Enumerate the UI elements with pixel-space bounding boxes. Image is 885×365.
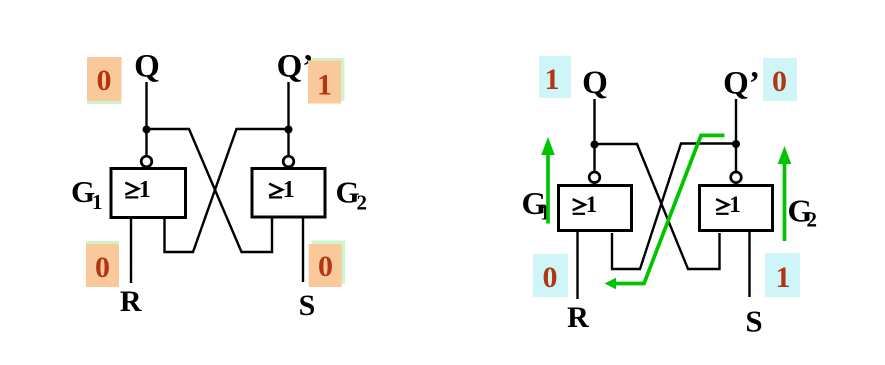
gate G1 NOR body (right latch) [559,186,632,231]
svg-text:0: 0 [95,251,110,284]
gate G2 NOR body (left latch) [252,169,325,218]
svg-text:0: 0 [97,64,112,97]
wire feedback Q to G2 lower input (right latch) [595,144,720,269]
transition arrow up beside G2 (right latch) [778,146,792,241]
svg-text:1: 1 [586,192,598,217]
gate G1 function label >=1 (left latch) [125,177,151,203]
gate G2 NOR body (right latch) [700,186,773,231]
svg-text:1: 1 [139,177,151,203]
label G2 (right latch) [788,193,818,232]
wire Q' output vertical (right latch) [735,99,737,171]
svg-text:Q: Q [134,49,160,85]
value label 0 at node Q' (right latch) [763,58,797,101]
label G2 (left latch) [336,175,368,215]
svg-text:1: 1 [92,190,103,214]
svg-text:0: 0 [318,250,333,283]
inversion bubble on G2 output (left latch) [283,156,294,167]
value label 1 at node Q' (left latch) [308,58,345,104]
value label 0 at R input (left latch) [86,241,119,287]
junction dot on Q wire (right latch) [591,141,599,149]
value label 1 at S input (right latch) [765,253,800,297]
value label 0 at S input (left latch) [309,241,345,288]
inversion bubble on G2 output (right latch) [731,172,742,183]
gate G2 function label >=1 (right latch) [716,192,741,217]
svg-text:Q’: Q’ [723,66,760,102]
junction dot on Q wire (left latch) [143,126,151,134]
svg-text:1: 1 [545,63,560,96]
wire R input (left latch) [130,219,132,283]
value label 1 at node Q (right latch) [539,56,571,98]
gate G1 NOR body (left latch) [111,169,186,218]
svg-text:R: R [120,285,142,318]
value label 0 at node Q (left latch) [87,57,122,104]
inversion bubble on G1 output (left latch) [141,156,152,167]
svg-text:0: 0 [543,261,558,294]
svg-text:1: 1 [729,192,741,217]
inversion bubble on G1 output (right latch) [589,172,600,183]
junction dot on Q' wire (left latch) [285,126,293,134]
gate G1 function label >=1 (right latch) [573,192,598,217]
svg-text:2: 2 [807,208,818,232]
value label 0 at R input (right latch) [533,254,568,297]
svg-text:R: R [567,301,589,334]
wire Q output vertical (right latch) [593,99,595,171]
svg-text:S: S [299,289,316,322]
svg-text:2: 2 [357,191,368,215]
wire R input (right latch) [576,232,578,299]
svg-text:1: 1 [317,69,332,102]
svg-text:1: 1 [776,261,791,294]
wire S input (left latch) [302,218,304,282]
wire feedback Q' to G1 lower input (right latch) [612,144,736,270]
svg-text:Q’: Q’ [277,49,314,85]
junction dot on Q' wire (right latch) [732,140,740,148]
wire Q output vertical (left latch) [145,82,147,156]
gate G2 function label >=1 (left latch) [269,177,295,203]
wire feedback Q' to G1 lower input (left latch) [165,129,289,252]
transition path from Q' feedback toward R side with left arrow (right latch) [605,135,725,289]
svg-text:S: S [745,304,762,339]
transition arrow up beside G1 (right latch) [541,137,555,224]
svg-text:Q: Q [582,65,608,101]
label G1 (right latch) [522,185,551,225]
wire S input (right latch) [748,232,750,297]
svg-text:1: 1 [283,177,295,203]
wire Q' output vertical (left latch) [287,82,289,156]
label G1 (left latch) [71,174,103,214]
svg-text:0: 0 [772,65,787,98]
wire feedback Q to G2 lower input (left latch) [147,129,273,252]
